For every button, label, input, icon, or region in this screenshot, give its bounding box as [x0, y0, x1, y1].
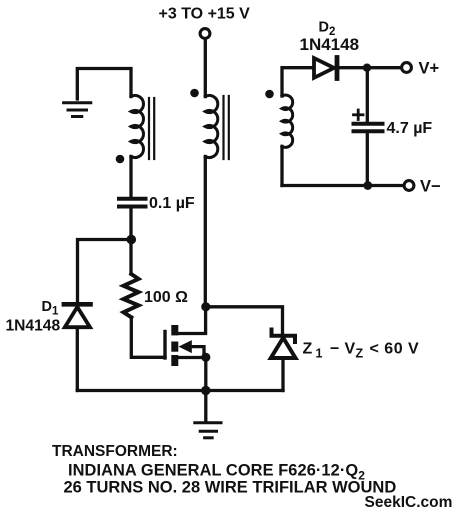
node N1 junction dot: [127, 235, 137, 245]
diode D1: [64, 304, 91, 327]
mosfet Q1 source wire: [178, 356, 206, 359]
wire W1 top to ground corner: [77, 69, 131, 100]
wire W3 top to diode D2: [282, 68, 314, 96]
wire C1 to node N1: [129, 209, 132, 240]
terminal V+: [402, 63, 412, 73]
transformer core lines (left pair): [149, 98, 154, 159]
wire node N1 to diode D1: [78, 240, 132, 303]
node dot W2 polarity: [190, 89, 199, 98]
wire W2 bottom to drain dot: [204, 157, 207, 307]
capacitor C1 0.1uF: [119, 199, 146, 207]
svg-text:1N4148: 1N4148: [300, 35, 360, 54]
wire node N1 to resistor R1: [129, 240, 132, 275]
wire drain dot to zener Z1: [206, 307, 283, 336]
wire R1 to gate of Q1: [131, 317, 165, 357]
ground (bottom): [195, 423, 221, 438]
zener Z1 triangle: [271, 338, 296, 358]
wire rail to ground: [204, 391, 207, 422]
wire D2 to V+ node: [338, 66, 401, 69]
svg-text:4.7 µF: 4.7 µF: [387, 120, 433, 137]
svg-text:26 TURNS NO. 28 WIRE TRIFILAR: 26 TURNS NO. 28 WIRE TRIFILAR WOUND: [64, 479, 397, 497]
mosfet Q1 gate bar: [163, 332, 166, 359]
node dot V- junction: [363, 181, 372, 190]
ground (top-left): [64, 103, 91, 117]
node dot W3 polarity: [265, 90, 274, 99]
terminal V-: [404, 181, 414, 191]
mosfet Q1 body arrow: [179, 340, 205, 355]
transformer winding W1 (left): [131, 96, 144, 158]
transformer winding W3 (right): [282, 95, 293, 147]
transformer core lines (right pair): [224, 96, 229, 159]
resistor R1 100 ohm: [124, 274, 139, 317]
svg-text:1N4148: 1N4148: [6, 318, 61, 335]
svg-text:0.1 µF: 0.1 µF: [149, 195, 195, 212]
wire V+ node to capacitor C2: [366, 68, 369, 122]
wire C2 to output rail: [366, 133, 369, 186]
capacitor C2 4.7uF: [354, 124, 383, 131]
mosfet Q1 drain wire: [178, 309, 206, 334]
svg-text:V−: V−: [420, 178, 441, 196]
svg-text:V+: V+: [419, 60, 440, 78]
svg-text:TRANSFORMER:: TRANSFORMER:: [52, 443, 178, 460]
svg-text:+3 TO +15 V: +3 TO +15 V: [159, 6, 251, 23]
node dot source junction: [201, 353, 210, 362]
node dot drain junction: [201, 302, 210, 311]
zener Z1 cathode bar: [272, 330, 296, 343]
node dot W1 polarity: [116, 155, 125, 164]
wire W1 bottom to capacitor C1: [129, 157, 132, 198]
terminal supply input: [200, 29, 210, 39]
svg-text:SeekIC.com: SeekIC.com: [365, 494, 453, 511]
capacitor C2 plus sign: [354, 110, 364, 120]
wire supply to winding W2: [204, 39, 207, 97]
wire D1 to bottom rail: [76, 327, 79, 390]
diode D2: [314, 58, 337, 79]
transformer winding W2 (middle): [205, 96, 218, 158]
node dot bottom rail: [201, 386, 210, 395]
wire source to bottom rail: [204, 357, 207, 390]
wire bottom rail: [77, 389, 283, 392]
mosfet Q1 channel segments: [171, 325, 178, 366]
wire W3 bottom to output rail: [280, 146, 283, 185]
wire output bottom rail: [282, 184, 404, 187]
node dot V+ junction: [363, 63, 371, 71]
svg-text:100 Ω: 100 Ω: [144, 289, 188, 306]
wire Z1 to bottom rail: [281, 358, 284, 391]
